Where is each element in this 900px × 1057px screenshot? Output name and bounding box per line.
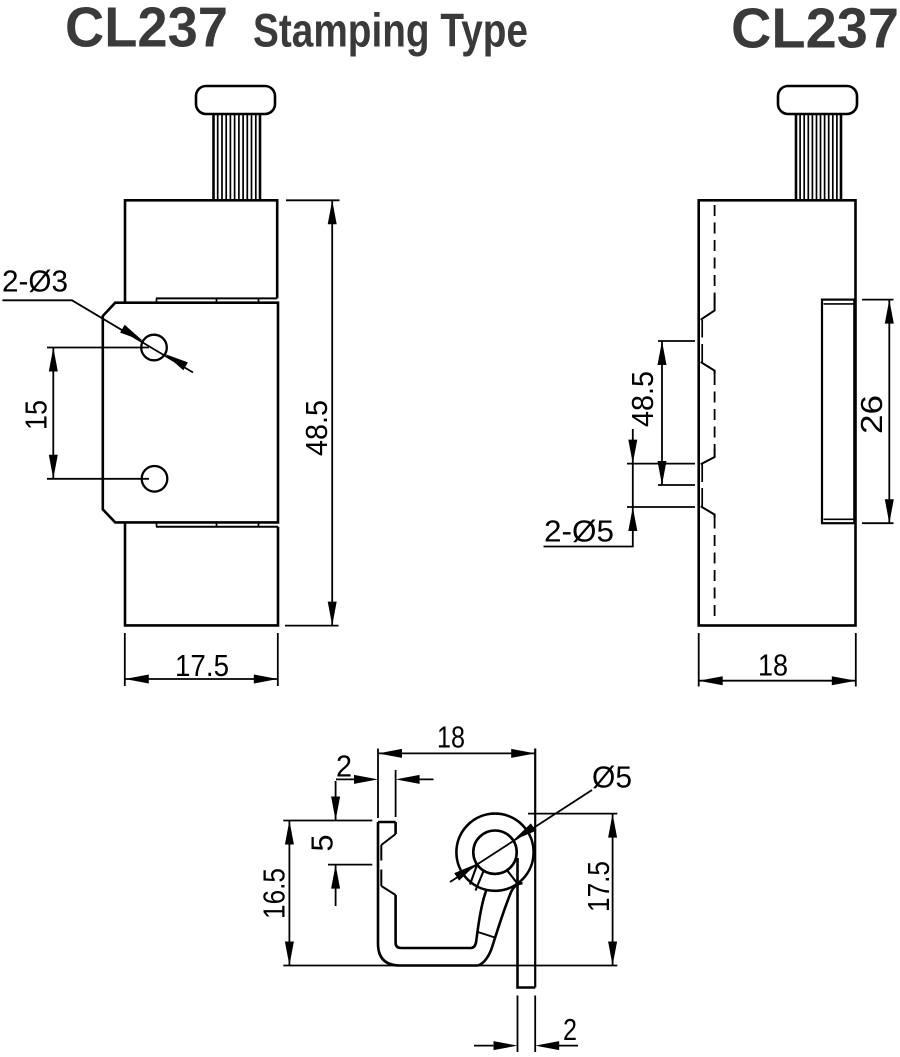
front view knurled shaft bbox=[214, 114, 261, 200]
svg-text:18: 18 bbox=[758, 648, 788, 683]
section right junction line bbox=[507, 870, 518, 883]
dim 2 bottom line bbox=[474, 1045, 578, 1047]
svg-text:Ø5: Ø5 bbox=[592, 760, 632, 795]
front view upper body bbox=[125, 200, 277, 302]
svg-text:15: 15 bbox=[19, 400, 54, 430]
dim 18 bottom line bbox=[378, 752, 535, 754]
section left leg inner edge bbox=[396, 822, 471, 948]
svg-text:18: 18 bbox=[437, 720, 465, 755]
dim dia5 line and leader to 2-dia-5 bbox=[544, 429, 633, 547]
dim 16.5 line bbox=[288, 821, 290, 966]
dim 15 extension lines bbox=[47, 348, 149, 479]
svg-text:16.5: 16.5 bbox=[257, 868, 292, 919]
svg-text:26: 26 bbox=[854, 395, 889, 434]
svg-text:CL237: CL237 bbox=[731, 0, 899, 61]
dim 48.5 front line bbox=[331, 200, 333, 625]
right view body outline bbox=[699, 200, 856, 625]
dim 2 bottom extension lines bbox=[518, 996, 536, 1053]
dim 17.5 line bbox=[125, 678, 278, 680]
section neck outer curve bbox=[478, 883, 523, 965]
dim 18 bottom extension line left bbox=[377, 749, 379, 819]
svg-text:2-Ø3: 2-Ø3 bbox=[2, 264, 68, 299]
svg-text:Stamping Type: Stamping Type bbox=[253, 4, 528, 57]
svg-text:48.5: 48.5 bbox=[625, 371, 660, 427]
section right leg bbox=[518, 858, 536, 988]
lanced notch B bbox=[701, 449, 715, 518]
right view knurled shaft bbox=[796, 114, 841, 200]
front view lower body top edge with ticks bbox=[156, 522, 278, 526]
front view upper body bottom edge with ticks bbox=[156, 298, 277, 302]
section neck inner curve bbox=[471, 890, 487, 949]
section curl outer circle bbox=[456, 814, 533, 891]
section right leg right edge and 18 extension bbox=[534, 749, 536, 988]
svg-text:2: 2 bbox=[336, 748, 352, 783]
hole upper 3mm bbox=[141, 335, 167, 361]
dim 5 extension line lower bbox=[328, 864, 372, 866]
shared extension line top surface bbox=[283, 820, 372, 822]
section curl inner circle hole dia5 bbox=[473, 831, 516, 874]
svg-text:5: 5 bbox=[305, 835, 340, 852]
baseline extension line bottom bbox=[283, 965, 617, 967]
svg-text:2-Ø5: 2-Ø5 bbox=[544, 514, 614, 549]
dim 17.5 bottom line bbox=[612, 814, 614, 966]
side latch plate bbox=[822, 300, 854, 524]
svg-text:2: 2 bbox=[563, 1012, 577, 1047]
dim 48.5 right line bbox=[661, 341, 663, 485]
section strip end lines bbox=[470, 864, 484, 891]
front view lower body bbox=[125, 522, 278, 625]
section countersink hole in leg bbox=[381, 834, 395, 895]
front view knob cap bbox=[196, 86, 275, 114]
dim 5 line bbox=[335, 781, 337, 906]
hole lower 3mm bbox=[142, 466, 168, 492]
dim 2 top line bbox=[336, 778, 434, 780]
lanced notch A bbox=[701, 294, 715, 374]
dim 26 line bbox=[888, 300, 890, 524]
dim 2 top extension line bbox=[395, 770, 397, 817]
dim 18 right line bbox=[699, 680, 856, 682]
svg-text:17.5: 17.5 bbox=[175, 648, 229, 683]
svg-text:48.5: 48.5 bbox=[299, 400, 334, 456]
hidden line dashed bbox=[714, 205, 716, 621]
right view knob cap bbox=[778, 86, 857, 114]
section left leg outer edge bbox=[378, 822, 478, 966]
dim 48.5 front extension lines bbox=[285, 200, 340, 625]
dim 18 right extension lines bbox=[699, 633, 856, 687]
section left leg top edge bbox=[378, 821, 396, 824]
leader dia5 bbox=[450, 790, 592, 882]
dim 17.5 right extension line bbox=[528, 813, 617, 815]
svg-text:CL237: CL237 bbox=[65, 0, 228, 60]
dim 17.5 extension lines bbox=[125, 633, 278, 686]
svg-text:17.5: 17.5 bbox=[581, 861, 616, 912]
section neck tick bbox=[478, 932, 495, 938]
dim 15 line bbox=[52, 348, 54, 479]
leader line 2-dia-3 bbox=[2, 300, 193, 372]
front view back plate with chamfered corners bbox=[103, 303, 278, 523]
dim 26 extension lines bbox=[862, 300, 894, 524]
dim 48.5 right extension lines bbox=[658, 341, 695, 485]
dim dia5 extension lines bbox=[627, 464, 695, 507]
